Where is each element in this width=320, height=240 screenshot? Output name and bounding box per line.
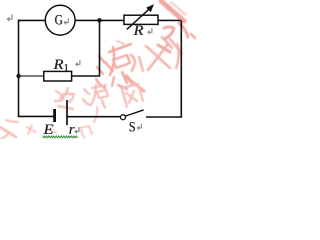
watermark cluster center bbox=[96, 41, 131, 89]
wire riser to top junction bbox=[99, 20, 101, 76]
watermark band mid-right bbox=[121, 84, 143, 107]
switch S lever bbox=[125, 110, 143, 116]
svg-text:R: R bbox=[52, 57, 63, 73]
svg-text:R: R bbox=[132, 23, 143, 39]
wire battery to switch bbox=[67, 116, 121, 118]
grammar squiggle under E r bbox=[43, 136, 78, 138]
watermark bottom small right bits bbox=[79, 126, 92, 138]
return mark after G bbox=[64, 18, 68, 24]
resistor R1 body bbox=[44, 71, 72, 81]
wire top middle (G to rheostat) bbox=[75, 19, 124, 21]
wire R1 to right riser bbox=[72, 75, 100, 77]
wire top-left horizontal bbox=[19, 19, 46, 21]
wire bottom-left (corner to battery) bbox=[18, 115, 54, 117]
svg-text:G: G bbox=[55, 12, 63, 28]
galvanometer G circle bbox=[45, 5, 75, 35]
return mark after R bbox=[148, 28, 152, 34]
watermark bottom small bits bbox=[27, 125, 56, 134]
wire right vertical bbox=[180, 20, 182, 117]
switch S pivot circle bbox=[121, 115, 126, 120]
watermark cluster upper-middle-right bbox=[127, 37, 182, 91]
node junction left (dot) bbox=[16, 74, 20, 78]
return mark after r bbox=[75, 127, 79, 133]
svg-text:1: 1 bbox=[63, 62, 69, 74]
node junction top (dot) bbox=[97, 18, 101, 22]
wire left junction to R1 bbox=[19, 75, 44, 77]
return mark after R1 bbox=[76, 60, 80, 66]
battery E long plate bbox=[66, 100, 68, 125]
wire top-right (rheostat to corner) bbox=[158, 19, 181, 21]
return mark after S bbox=[137, 124, 141, 130]
svg-text:S: S bbox=[129, 120, 136, 136]
return mark page top-left bbox=[7, 14, 12, 21]
watermark cluster bottom-left corner bbox=[0, 120, 18, 139]
rheostat R body bbox=[124, 15, 158, 24]
watermark band mid bbox=[83, 85, 108, 122]
wire left vertical bbox=[18, 20, 20, 117]
wire bottom-right (corner to switch) bbox=[146, 116, 182, 118]
battery E short plate bbox=[53, 109, 56, 122]
rheostat R arrow bbox=[127, 8, 150, 29]
watermark band mid-left bbox=[55, 88, 74, 109]
watermark cluster top-right bbox=[158, 1, 195, 52]
